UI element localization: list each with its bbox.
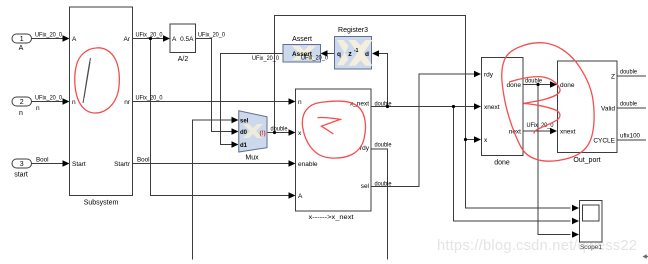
wire sel feedback from bottom to Mux sel (193, 120, 234, 260)
wire nr to n input (133, 101, 290, 103)
svg-text:UFix_20_0: UFix_20_0 (252, 55, 279, 62)
svg-text:double: double (375, 181, 392, 188)
junction node x net to done x (464, 138, 467, 141)
arrowhead into Subsystem A (63, 35, 70, 42)
done block (482, 58, 524, 167)
svg-text:Assert: Assert (292, 36, 312, 43)
arrowhead into done x (474, 136, 481, 143)
arrowhead into big block A (289, 192, 296, 199)
svg-text:Startr: Startr (114, 161, 131, 168)
wire port3 to Subsystem Start (31, 163, 64, 165)
wire done out to Out_port done (523, 84, 551, 86)
arrowhead into done xnext (474, 103, 481, 110)
svg-text:(!): (!) (260, 130, 266, 137)
arrowhead into Mux d0 (232, 128, 239, 135)
wire Startr to enable input (133, 163, 290, 165)
A/2 block (170, 24, 196, 63)
arrowhead into Assert (points left) (321, 50, 328, 57)
svg-text:double: double (525, 78, 542, 85)
red z mark inside loop (318, 118, 341, 134)
svg-text:Register3: Register3 (338, 27, 368, 34)
junction node x_next to scope (452, 105, 455, 108)
wire rdy out down offscreen (371, 149, 388, 260)
arrowhead into big block enable (289, 160, 296, 167)
svg-text:Start: Start (72, 161, 86, 168)
svg-text:Bool: Bool (137, 157, 150, 164)
junction node done out to scope (536, 83, 539, 86)
svg-text:n: n (19, 110, 23, 117)
svg-text:3: 3 (20, 161, 24, 168)
svg-text:A: A (298, 193, 303, 200)
arrowhead into Mux sel (232, 117, 239, 124)
inport 3 (12, 159, 32, 179)
wire x_next out to done xnext (371, 106, 475, 108)
wire x_next branch up to Register3 d (379, 54, 388, 107)
svg-text:Mux: Mux (245, 155, 259, 162)
wire Z output stub (617, 75, 646, 77)
arrowhead into Subsystem n (63, 98, 70, 105)
svg-text:Valid: Valid (601, 106, 615, 113)
svg-text:A: A (72, 36, 77, 43)
wire Ar to A/2 (133, 38, 166, 40)
svg-text:-1: -1 (354, 48, 359, 54)
svg-text:double: double (620, 101, 637, 108)
svg-text:UFix_20_0: UFix_20_0 (35, 32, 62, 39)
svg-text:q: q (337, 51, 341, 58)
junction node x_next to register (386, 105, 389, 108)
wire Register3 q to Assert (327, 53, 335, 55)
svg-text:Scope1: Scope1 (580, 244, 602, 251)
svg-text:1: 1 (20, 36, 24, 43)
arrowhead into big block n (289, 98, 296, 105)
svg-text:UFix_20_0: UFix_20_0 (136, 95, 163, 102)
wire port1 to Subsystem A (31, 38, 64, 40)
wire x net: mux out up over to done x and scope 1 (275, 16, 571, 209)
svg-text:d1: d1 (240, 143, 248, 149)
wire done x stub (466, 139, 476, 141)
svg-text:ufix100: ufix100 (620, 133, 640, 140)
svg-text:A: A (172, 36, 177, 43)
red 3 mark inside loop (509, 77, 560, 134)
wire CYCLE output stub (617, 139, 646, 141)
wire Mux out to x input (267, 132, 289, 134)
wire sel out up to done rdy (371, 74, 475, 187)
wire Valid output stub (617, 107, 646, 109)
svg-text:UFix_20_0: UFix_20_0 (198, 32, 225, 39)
svg-text:rdy: rdy (484, 72, 494, 79)
svg-text:xnext: xnext (484, 104, 500, 111)
red scribble circle on Subsystem (75, 48, 120, 113)
svg-text:z: z (348, 51, 352, 58)
svg-text:Bool: Bool (36, 157, 49, 164)
svg-text:https://blog.csdn.net/qwess22: https://blog.csdn.net/qwess22 (437, 238, 637, 254)
svg-text:x------>x_next: x------>x_next (309, 214, 354, 221)
svg-text:double: double (375, 101, 392, 108)
svg-text:Out_port: Out_port (573, 157, 600, 164)
wire Ar branch down to A input (151, 39, 290, 196)
arrowhead into Scope in3 (572, 231, 579, 238)
inport 2 (12, 97, 32, 117)
wire done branch down to scope input 3 (538, 85, 571, 235)
svg-text:done: done (560, 82, 575, 89)
svg-text:UFix_20_0: UFix_20_0 (136, 32, 163, 39)
arrowhead into Scope in2 (572, 218, 579, 225)
svg-text:0.5A: 0.5A (180, 36, 194, 43)
arrowhead into Register3 d (points left) (372, 50, 379, 57)
red scribble loop on big block (302, 101, 365, 158)
svg-text:A: A (19, 45, 24, 52)
svg-text:start: start (14, 172, 28, 179)
svg-text:n: n (36, 105, 40, 112)
svg-text:n: n (72, 99, 76, 106)
svg-text:UFix_20_0: UFix_20_0 (35, 95, 62, 102)
Mux block (239, 111, 267, 162)
svg-text:sel: sel (361, 183, 370, 190)
svg-text:nr: nr (124, 99, 131, 106)
arrowhead into Out_port xnext (550, 128, 557, 135)
svg-text:double: double (620, 69, 637, 76)
svg-text:n: n (298, 99, 302, 106)
svg-text:done: done (494, 160, 510, 167)
svg-text:d0: d0 (240, 130, 248, 136)
junction node on mux out wire (273, 131, 276, 134)
Out_port block (558, 61, 618, 164)
svg-text:xnext: xnext (560, 129, 576, 136)
svg-text:Ar: Ar (124, 36, 131, 43)
inport 1 (12, 34, 32, 52)
svg-text:CYCLE: CYCLE (593, 138, 615, 145)
arrowhead into Out_port done (550, 81, 557, 88)
svg-text:A/2: A/2 (178, 56, 189, 63)
junction node on Ar wire (149, 37, 152, 40)
scope block (580, 201, 603, 252)
arrowhead into Scope in1 (572, 205, 579, 212)
svg-text:enable: enable (298, 161, 318, 168)
svg-text:sel: sel (240, 118, 249, 124)
arrowhead into A/2 (163, 35, 170, 42)
svg-text:UFix_20_0: UFix_20_0 (301, 55, 328, 62)
gray slash mark inside scribble (83, 58, 91, 103)
svg-text:Subsystem: Subsystem (84, 200, 119, 207)
arrowhead into big block x (289, 129, 296, 136)
subsystem block (70, 7, 133, 207)
wire x_next branch down to scope input 2 (454, 107, 571, 222)
Assert block (283, 36, 321, 62)
svg-text:Z: Z (611, 74, 615, 81)
svg-text:double: double (375, 142, 392, 149)
big block x to x_next (296, 89, 372, 221)
gray cursor arrow bottom right (643, 254, 648, 259)
arrowhead into Mux d1 (232, 141, 239, 148)
svg-text:done: done (507, 82, 522, 89)
svg-text:double: double (271, 126, 288, 133)
wire A/2 out to Mux d0 (196, 39, 234, 132)
wire Assert out to Mux d1 (221, 54, 284, 145)
wire next out to Out_port xnext (523, 130, 551, 132)
arrowhead into Subsystem Start (63, 160, 70, 167)
arrowhead into done rdy (474, 71, 481, 78)
svg-text:2: 2 (20, 99, 24, 106)
Register3 block (335, 27, 373, 69)
red scribble big loop on done and Out_port (502, 43, 594, 161)
wire port2 to Subsystem n (31, 101, 64, 103)
svg-text:d: d (365, 51, 369, 58)
